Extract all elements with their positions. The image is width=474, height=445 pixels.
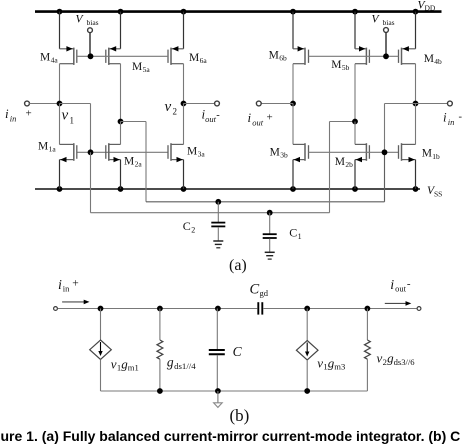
svg-text:ds3//6: ds3//6 [394,357,416,367]
svg-text:v: v [111,356,117,371]
wire v2 to i_out- terminal [184,103,215,105]
svg-text:in: in [10,114,17,124]
wire node to i_in- terminal [416,103,448,105]
svg-text:M: M [269,49,279,61]
VDD power rail [35,10,442,13]
svg-text:M: M [422,148,432,160]
svg-text:DD: DD [425,4,436,13]
wire B cross-coupling left gate node to right node B [91,122,356,213]
svg-text:1b: 1b [432,152,440,161]
svg-text:1: 1 [298,232,302,241]
capacitor C1 [263,210,277,252]
svg-text:5b: 5b [342,63,350,72]
svg-text:M: M [38,140,48,152]
wire A cross-coupling to right gate node [146,152,385,202]
svg-text:(a): (a) [229,257,247,274]
wire M4b drain to node i_in- [415,64,417,104]
terminal output part b [417,307,421,311]
svg-text:(b): (b) [230,406,250,425]
svg-text:gd: gd [260,288,269,298]
wire M3b source to VSS [292,160,294,189]
wire M3a source to VSS [183,160,185,189]
svg-text:out: out [205,114,217,124]
transistor M4a [60,46,77,65]
svg-text:1: 1 [70,116,75,126]
svg-text:ds1//4: ds1//4 [174,361,196,371]
svg-text:v: v [62,108,69,124]
svg-text:v: v [317,355,323,370]
svg-text:+: + [26,108,32,120]
terminal i_in+ [25,101,30,106]
wire node B to M2b drain [354,122,356,145]
svg-text:M: M [331,59,341,71]
svg-text:6a: 6a [200,56,208,65]
junction dots on top wire [98,306,371,312]
terminal input part b [54,307,58,311]
current source v1gm1 [90,309,112,392]
svg-text:i: i [58,278,62,293]
transistor M6a [168,46,184,65]
wire top left segment [58,308,257,310]
svg-text:in: in [448,117,455,127]
svg-text:-: - [407,278,411,290]
wire M5b drain to node B [354,64,356,122]
transistor M1b [399,143,416,162]
ground part b [214,388,223,407]
transistor M6b [293,46,309,65]
wire M2a source to VSS [120,160,122,189]
wire M4a drain to node v1 [59,64,61,104]
svg-text:4a: 4a [51,56,59,65]
svg-text:5a: 5a [143,65,151,74]
svg-text:6b: 6b [279,54,287,63]
node V_bias right junction [383,53,389,59]
svg-text:3a: 3a [198,150,206,159]
wire v2b to i_out+ terminal [261,103,293,105]
transistor M2b [355,143,369,162]
svg-text:SS: SS [434,190,442,199]
wire node A to wire-A cross coupling [121,122,147,202]
wire VDD to M6b source [292,12,294,49]
wire v2b node to M3b drain [292,104,294,145]
wire gate line M1a-M2a-M3a [77,151,168,153]
svg-text:in: in [63,283,70,293]
wire gate line M4a-M5a-M6a [77,55,168,57]
node gate M1b/M2b junction [382,149,388,155]
svg-text:M: M [270,146,280,158]
svg-text:bias: bias [87,18,99,27]
wire VDD to M4b source [415,12,417,49]
node v2b [290,101,296,107]
capacitor C2 [211,199,225,241]
svg-text:v: v [377,350,383,365]
svg-text:g: g [167,354,174,369]
svg-text:+: + [267,112,273,124]
V_bias terminal right [384,28,389,57]
VSS power rail [35,188,420,190]
ground below C2 [213,241,223,248]
ground below C1 [265,252,275,259]
wire M1a source to VSS [59,160,61,189]
wire gate line M3b-M2b-M1b [309,151,399,153]
svg-text:M: M [187,145,197,157]
svg-text:-: - [216,110,220,121]
terminal i_out+ [256,101,261,106]
svg-text:m3: m3 [334,362,345,372]
wire M6b drain to node v2b [292,64,294,104]
svg-text:out: out [395,284,407,294]
wire v1 node to M1a drain [59,104,61,145]
junction dots on VDD rail [57,9,419,15]
transistor M2a [106,143,121,162]
svg-text:-: - [459,112,463,123]
figure caption [1,428,474,444]
wire M2b source to VSS [354,160,356,189]
svg-text:M: M [124,155,134,167]
svg-text:C: C [183,219,191,233]
svg-text:M: M [40,51,50,63]
transistor M4b [399,46,416,65]
wire node A to M2a drain [120,122,122,145]
wire v1 to gate node M1a/M2a [60,104,91,153]
svg-text:1a: 1a [49,145,57,154]
svg-text:M: M [424,53,434,65]
wire VDD to M4a source [59,12,61,49]
resistor v2g_ds3//6 [365,309,371,392]
capacitor C_gd [258,302,262,314]
wire VDD to M5b source [354,12,356,49]
junction dots on VSS rail [57,186,419,192]
wire node to gate node M1b/M2b [385,104,416,153]
wire top right segment [264,308,417,310]
transistor M3a [168,143,184,162]
svg-text:M: M [335,156,345,168]
node gate M1a/M2a junction [88,149,94,155]
resistor g_ds1//4 [157,309,163,392]
transistor M5b [355,46,369,65]
wire i_in+ to node v1 [29,103,59,105]
current source v1gm3 [296,309,318,392]
current direction arrow input [62,300,89,305]
svg-text:M: M [189,52,199,64]
svg-text:C: C [233,344,243,359]
svg-text:M: M [132,61,142,73]
svg-text:v: v [165,99,172,115]
node i_in- junction [413,101,419,107]
current direction arrow output [385,301,412,306]
svg-text:4b: 4b [434,57,442,66]
capacitor C [209,309,225,392]
wire v2 node to M3a drain [183,104,185,145]
svg-text:C: C [289,226,297,240]
svg-text:2b: 2b [345,160,353,169]
terminal i_in- [448,101,453,106]
transistor M3b [293,143,309,162]
svg-text:i: i [390,278,394,293]
wire M5a drain to node A [120,64,122,122]
transistor M1a [60,143,77,162]
svg-text:m1: m1 [128,363,139,373]
wire gate line M6b-M5b-M4b [309,55,399,57]
wire M1b source to VSS [415,160,417,189]
transistor M5a [106,46,121,65]
node V_bias left junction [88,53,94,59]
node B junction M5b/M2b drains [352,119,358,125]
junction dots on bottom wire [157,388,310,394]
terminal i_out- [215,101,220,106]
svg-text:out: out [252,117,263,127]
svg-text:i: i [5,106,9,121]
svg-text:2: 2 [191,226,195,235]
wire VDD to M6a source [183,12,185,49]
svg-text:C: C [250,281,260,297]
node v1 [57,101,63,107]
svg-text:i: i [248,110,252,125]
svg-text:3b: 3b [280,151,288,160]
svg-text:2: 2 [173,107,178,117]
V_bias terminal left [88,28,93,56]
node A junction M5a/M2a drains [118,119,124,125]
wire bottom rail part b [101,390,368,392]
svg-text:bias: bias [383,18,395,27]
wire VDD to M5a source [120,12,122,49]
wire node to M1b drain [415,104,417,145]
svg-text:i: i [443,110,447,125]
svg-text:+: + [72,278,79,290]
node v2 [181,101,187,107]
wire M6a drain to node v2 [183,64,185,104]
svg-text:2a: 2a [135,160,143,169]
